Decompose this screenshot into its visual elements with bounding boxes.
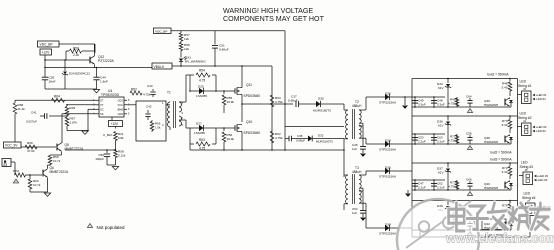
svg-text:16.9k: 16.9k — [227, 137, 235, 141]
svg-text:+12V: +12V — [111, 122, 119, 126]
svg-text:ST: ST — [100, 98, 104, 102]
svg-text:D35: D35 — [318, 97, 324, 101]
svg-text:488uH: 488uH — [352, 104, 362, 108]
svg-text:Not populated: Not populated — [97, 225, 126, 230]
svg-text:STPS2156A: STPS2156A — [379, 175, 397, 179]
svg-text:1SS355: 1SS355 — [196, 94, 207, 98]
svg-text:MMBT2222A: MMBT2222A — [65, 147, 84, 151]
svg-text:D24 BZX84C12: D24 BZX84C12 — [69, 72, 90, 76]
svg-text:3.3uF: 3.3uF — [437, 103, 445, 107]
svg-text:6.8k: 6.8k — [118, 136, 124, 140]
svg-text:1.8uF: 1.8uF — [100, 80, 108, 84]
svg-text:61V: 61V — [438, 86, 444, 90]
svg-text:VCC_9V: VCC_9V — [5, 144, 18, 148]
svg-text:MURS160T3: MURS160T3 — [316, 140, 333, 144]
svg-text:1.87k: 1.87k — [70, 121, 78, 125]
svg-text:H9202WH: H9202WH — [484, 103, 498, 107]
svg-text:10.7k: 10.7k — [53, 159, 61, 163]
svg-text:D38: D38 — [385, 223, 391, 227]
svg-text:11.4k: 11.4k — [18, 107, 26, 111]
svg-text:4.75k: 4.75k — [143, 93, 151, 97]
svg-text:Q11: Q11 — [246, 83, 252, 87]
svg-text:MMBT2222A: MMBT2222A — [50, 170, 69, 174]
svg-text:R63: R63 — [199, 138, 205, 142]
svg-text:VCC: VCC — [118, 103, 124, 107]
svg-text:4.75k: 4.75k — [275, 136, 283, 140]
svg-text:H9202WH: H9202WH — [484, 186, 498, 190]
svg-text:D25: D25 — [198, 85, 204, 89]
svg-text:4.75k: 4.75k — [275, 100, 283, 104]
svg-text:C58: C58 — [466, 132, 472, 136]
svg-text:STPS2156A: STPS2156A — [379, 232, 397, 236]
svg-text:R54: R54 — [199, 69, 205, 73]
svg-text:Q10: Q10 — [246, 120, 252, 124]
svg-text:5.49: 5.49 — [502, 86, 508, 90]
svg-text:-LED #2: -LED #2 — [536, 129, 547, 133]
svg-text:C64: C64 — [466, 95, 472, 99]
svg-text:1uF: 1uF — [352, 211, 357, 215]
svg-text:D32: D32 — [318, 134, 324, 138]
svg-text:PZT2222A: PZT2222A — [98, 59, 115, 63]
svg-text:5.49: 5.49 — [502, 170, 508, 174]
svg-text:R52: R52 — [131, 87, 137, 91]
svg-text:D30: D30 — [385, 166, 391, 170]
svg-text:100pF: 100pF — [95, 157, 104, 161]
svg-text:61V: 61V — [438, 171, 444, 175]
svg-text:1.0k: 1.0k — [155, 126, 161, 130]
svg-text:0.68uF: 0.68uF — [219, 48, 229, 52]
svg-text:H9202WH: H9202WH — [484, 140, 498, 144]
svg-text:4.75: 4.75 — [199, 79, 205, 83]
svg-text:0.68uF: 0.68uF — [296, 139, 305, 143]
svg-text:STPS2156A: STPS2156A — [379, 101, 397, 105]
svg-text:4.75k: 4.75k — [448, 102, 456, 106]
svg-text:488uH: 488uH — [352, 170, 362, 174]
svg-text:D28: D28 — [385, 139, 391, 143]
svg-text:MURS160T3: MURS160T3 — [313, 109, 331, 113]
svg-text:-LED #3: -LED #3 — [537, 178, 548, 182]
svg-text:4.75k: 4.75k — [448, 139, 456, 143]
svg-text:5.11k: 5.11k — [118, 154, 126, 158]
svg-text:SC: SC — [100, 107, 104, 111]
svg-text:16.9k: 16.9k — [227, 100, 235, 104]
svg-text:D27: D27 — [196, 122, 202, 126]
svg-text:Iout1 = 500mA: Iout1 = 500mA — [487, 73, 509, 77]
svg-text:VT: VT — [100, 103, 104, 107]
svg-text:VDC_BP: VDC_BP — [40, 43, 54, 47]
svg-text:String #3: String #3 — [520, 165, 534, 169]
svg-text:String #2: String #2 — [518, 116, 532, 120]
svg-text:R29: R29 — [70, 106, 76, 110]
svg-text:TPS92020D: TPS92020D — [101, 93, 120, 97]
svg-text:2.2uF: 2.2uF — [437, 186, 445, 190]
svg-text:C66: C66 — [466, 178, 472, 182]
svg-text:VDC_BP: VDC_BP — [155, 29, 167, 33]
svg-text:GD1: GD1 — [118, 98, 124, 102]
svg-text:SPD03N60: SPD03N60 — [244, 94, 261, 98]
svg-text:2.2uF: 2.2uF — [437, 140, 445, 144]
svg-text:C38: C38 — [297, 134, 303, 138]
svg-text:C_BLK: C_BLK — [103, 133, 113, 137]
svg-text:18nF: 18nF — [49, 80, 56, 84]
svg-text:1SS355: 1SS355 — [194, 131, 205, 135]
svg-text:Iout3 = 500mA: Iout3 = 500mA — [490, 158, 512, 162]
svg-text:4.75k: 4.75k — [448, 185, 456, 189]
svg-text:PH2: PH2 — [13, 169, 19, 173]
svg-text:2.2uF: 2.2uF — [418, 186, 426, 190]
svg-text:BV_WARNING: BV_WARNING — [185, 60, 206, 64]
svg-text:+12V: +12V — [42, 51, 51, 55]
svg-text:VBULK: VBULK — [154, 65, 166, 69]
svg-text:5.49: 5.49 — [502, 123, 508, 127]
svg-text:3.3uF: 3.3uF — [418, 103, 426, 107]
svg-text:2.2uF: 2.2uF — [418, 140, 426, 144]
svg-text:47.0k: 47.0k — [27, 149, 35, 153]
svg-text:D26: D26 — [385, 92, 391, 96]
svg-text:-LED #1: -LED #1 — [536, 97, 547, 101]
svg-text:String #4: String #4 — [522, 196, 536, 200]
svg-text:SPD03N60: SPD03N60 — [244, 131, 261, 135]
svg-text:2.2k: 2.2k — [73, 53, 79, 57]
svg-text:0.027uF: 0.027uF — [26, 120, 37, 124]
svg-text:0.68uF: 0.68uF — [288, 99, 298, 103]
svg-text:C41: C41 — [31, 111, 37, 115]
svg-text:R64: R64 — [54, 95, 60, 99]
svg-text:R66: R66 — [27, 141, 33, 145]
svg-text:R50: R50 — [73, 46, 79, 50]
svg-text:C43: C43 — [147, 84, 153, 88]
svg-text:GD2: GD2 — [118, 112, 124, 116]
svg-text:String #1: String #1 — [518, 84, 532, 88]
svg-text:BHB: BHB — [118, 107, 124, 111]
svg-text:C42: C42 — [146, 105, 152, 109]
svg-text:10.7k: 10.7k — [33, 183, 41, 187]
svg-text:SS: SS — [100, 112, 104, 116]
svg-text:www.elecfans.com: www.elecfans.com — [445, 232, 554, 246]
svg-text:STPS2156A: STPS2156A — [379, 148, 397, 152]
svg-text:T1: T1 — [167, 91, 171, 95]
svg-text:COMPONENTS MAY GET HOT: COMPONENTS MAY GET HOT — [223, 15, 325, 23]
svg-text:1uF: 1uF — [352, 147, 357, 151]
svg-text:12k: 12k — [184, 47, 189, 51]
svg-text:61V: 61V — [438, 124, 444, 128]
svg-text:12k: 12k — [184, 37, 189, 41]
svg-text:WARNING! HIGH VOLTAGE: WARNING! HIGH VOLTAGE — [223, 7, 313, 15]
svg-text:Iout2 = 500mA: Iout2 = 500mA — [490, 151, 512, 155]
